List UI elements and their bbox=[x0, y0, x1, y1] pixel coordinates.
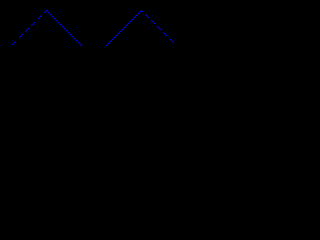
soft glow under plot lines bbox=[12, 10, 174, 46]
solid rising edge of right triangular pulse bbox=[106, 10, 142, 46]
dashed rising edge of left triangular pulse bbox=[12, 10, 47, 45]
dashed falling edge of right triangular pulse bbox=[142, 11, 174, 43]
solid falling edge of left triangular pulse bbox=[46, 10, 82, 46]
plot of two triangular pulses on black background bbox=[0, 0, 188, 112]
